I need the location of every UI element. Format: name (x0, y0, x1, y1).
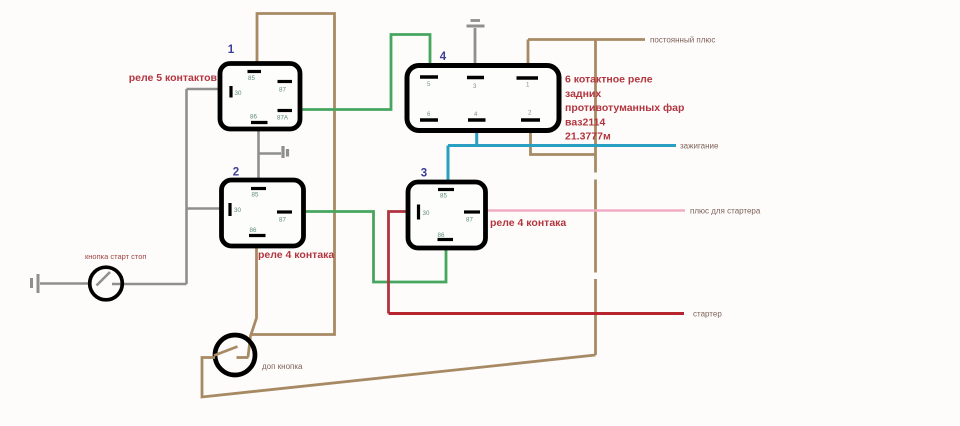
wire: green from relay1 pin87A to relay4 pin5 (300, 35, 431, 110)
svg-text:стартер: стартер (693, 310, 722, 319)
svg-text:доп кнопка: доп кнопка (262, 362, 303, 371)
relay4 pin 1 (517, 76, 539, 79)
relay1 pin 87 (278, 80, 293, 83)
wire: tan permanent-plus riser x596 upper part (594, 40, 597, 356)
relay3 pin 85 (438, 188, 454, 191)
svg-text:86: 86 (250, 227, 257, 234)
wire: pink плюс для стартера from relay3 pin87 (486, 209, 686, 212)
wire: green from relay2 pin87 to relay3 pin86 (304, 212, 447, 283)
svg-text:зажигание: зажигание (680, 142, 719, 151)
label 6-pin relay annotation block (565, 74, 684, 143)
svg-text:86: 86 (250, 114, 257, 121)
svg-text:2: 2 (233, 167, 239, 179)
wire: red стартер horizontal (389, 312, 685, 315)
ground symbol above relay4 (467, 21, 485, 27)
svg-text:2: 2 (528, 110, 532, 117)
svg-text:реле 4 контака: реле 4 контака (490, 217, 566, 229)
wire: tan from dop-knopka left, down, long diagonal to permanent-plus riser (202, 355, 596, 397)
svg-text:4: 4 (440, 51, 447, 63)
svg-text:30: 30 (423, 210, 430, 217)
svg-text:87: 87 (279, 87, 286, 94)
relay2 pin 30 (228, 203, 231, 216)
svg-text:85: 85 (440, 193, 447, 200)
svg-text:ваз2114: ваз2114 (565, 116, 605, 128)
wire: cyan ignition horizontal (448, 144, 676, 147)
push button S2 доп кнопка (214, 335, 255, 375)
wire: gray vertical riser from button to relay wires (185, 89, 188, 284)
svg-text:1: 1 (526, 82, 530, 89)
svg-text:85: 85 (252, 192, 259, 199)
relay1 pin 85 (248, 70, 262, 73)
relay4 pin 5 (420, 75, 438, 78)
chassis ground bars between relay1 and relay2 (283, 146, 288, 158)
relay1 pin 87A (278, 109, 293, 112)
wire: tan from relay4 pin2 down and right to riser (531, 131, 597, 155)
svg-text:85: 85 (248, 75, 255, 82)
wire: gray branch to relay2 pin30 (187, 207, 222, 210)
svg-text:3: 3 (421, 168, 427, 180)
svg-text:6: 6 (427, 111, 431, 118)
terminal bars left of start-stop button (32, 274, 39, 293)
svg-text:задних: задних (565, 88, 601, 100)
relay2 pin 87 (277, 210, 292, 213)
relay K3 (4-pin) (408, 182, 486, 248)
svg-text:21.3777м: 21.3777м (565, 131, 611, 143)
svg-text:плюс для стартера: плюс для стартера (690, 207, 761, 216)
wire: gray button right side to riser (112, 283, 187, 286)
svg-text:реле 5 контактов: реле 5 контактов (129, 72, 218, 84)
svg-text:постоянный плюс: постоянный плюс (650, 36, 715, 45)
svg-text:30: 30 (234, 207, 241, 214)
relay4 pin 3 (467, 76, 484, 79)
svg-text:противотуманных фар: противотуманных фар (565, 102, 684, 114)
wire: tan from relay1 pin85 up over to dop-knopka riser (250, 14, 335, 335)
wire: tan drop to relay4 pin1 (527, 40, 530, 66)
wire: tan horizontal постоянный плюс feed (528, 38, 645, 41)
svg-text:87A: 87A (277, 115, 289, 122)
relay K1 (5-pin) реле 5 контактов (220, 64, 300, 130)
svg-text:30: 30 (235, 90, 242, 97)
wire: gray terminal to button left (40, 282, 89, 285)
wire: gray stub to chassis ground (259, 152, 282, 155)
relay K2 (4-pin) (222, 180, 304, 246)
wire: crimson from relay3 pin30 left and down (389, 212, 409, 314)
wire: tan from relay2 pin86 down into dop-knopka (248, 246, 257, 357)
svg-text:87: 87 (279, 217, 286, 224)
svg-text:1: 1 (228, 44, 235, 56)
svg-text:87: 87 (466, 217, 473, 224)
relay1 pin 30 (229, 86, 232, 98)
wire: cyan from relay4 pin4 down to ignition line (475, 131, 478, 146)
relay3 pin 30 (417, 205, 420, 220)
wire: gray from chassis ground symbol down to relay4 pin3 (474, 28, 477, 66)
wire: cyan drop to relay3 pin85 (447, 146, 450, 183)
relay2 pin 85 (251, 187, 266, 190)
relay3 pin 87 (464, 210, 480, 213)
wire: gray relay1 pin86 down to relay2 pin85 (257, 129, 260, 180)
relay K4 (6-pin) (407, 66, 559, 131)
svg-text:5: 5 (427, 81, 431, 88)
svg-text:3: 3 (473, 83, 477, 90)
svg-text:4: 4 (474, 111, 478, 118)
svg-text:реле 4 контака: реле 4 контака (258, 249, 334, 261)
svg-text:6 котактное реле: 6 котактное реле (565, 74, 653, 86)
push button S1 кнопка старт стоп (90, 267, 123, 300)
svg-text:кнопка старт стоп: кнопка старт стоп (85, 252, 147, 261)
wire: gray from relay1 pin30 left to riser (187, 88, 221, 91)
